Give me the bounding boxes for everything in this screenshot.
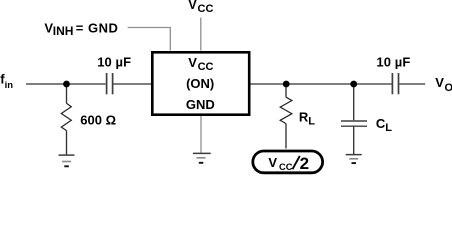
- svg-text:10 µF: 10 µF: [376, 54, 410, 69]
- svg-text:L: L: [308, 116, 315, 128]
- svg-text:in: in: [5, 80, 14, 91]
- svg-text:CC: CC: [279, 162, 293, 172]
- svg-text:V: V: [188, 0, 197, 12]
- svg-text:V: V: [435, 75, 444, 90]
- svg-text:O: O: [445, 82, 452, 94]
- svg-text:V: V: [268, 155, 277, 170]
- svg-text:=: =: [76, 20, 84, 35]
- svg-text:GND: GND: [186, 97, 215, 112]
- svg-text:INH: INH: [53, 24, 74, 38]
- svg-text:CC: CC: [198, 3, 214, 15]
- svg-text:600 Ω: 600 Ω: [80, 113, 116, 128]
- svg-text:10 µF: 10 µF: [97, 54, 131, 69]
- svg-text:CC: CC: [198, 61, 214, 73]
- svg-text:L: L: [385, 122, 392, 134]
- svg-text:V: V: [188, 55, 197, 70]
- svg-text:2: 2: [300, 154, 309, 173]
- svg-text:GND: GND: [88, 20, 118, 35]
- svg-text:(ON): (ON): [186, 76, 214, 91]
